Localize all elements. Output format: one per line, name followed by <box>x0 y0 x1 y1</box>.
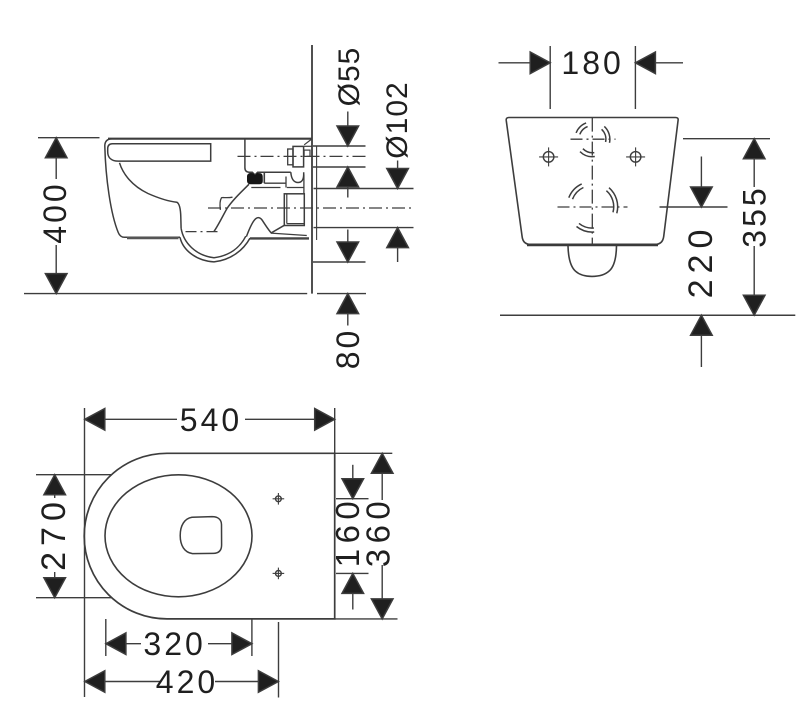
mounting hole left <box>539 147 558 166</box>
inlet circle arcs outer <box>576 123 610 157</box>
dim 420 arrows <box>85 671 105 693</box>
outlet box <box>284 194 304 226</box>
floor line <box>24 293 307 295</box>
dim 270 stems <box>54 492 56 498</box>
svg-text:360: 360 <box>360 496 397 568</box>
gasket seal (black) <box>248 174 263 184</box>
svg-text:420: 420 <box>156 664 218 700</box>
dim 160 stems <box>352 465 354 479</box>
dim 80 arrows <box>337 242 359 262</box>
dim 180 tails <box>499 62 532 64</box>
weir hump <box>246 218 284 237</box>
dim O55 ext lines <box>313 145 366 147</box>
svg-text:80: 80 <box>330 328 366 370</box>
J hook <box>291 172 304 182</box>
dim 220 ext line <box>660 206 728 208</box>
shelf line left <box>251 187 280 189</box>
mounting hole right <box>626 147 645 166</box>
dim 160 arrows <box>342 479 364 499</box>
chamber divider <box>263 172 265 183</box>
rear bottom thick edge <box>527 243 658 246</box>
svg-text:355: 355 <box>736 185 772 247</box>
dim 540 arrows <box>85 409 105 431</box>
chamber right edge <box>303 174 305 193</box>
dim 360 stems <box>381 471 383 500</box>
dim 220 arrows <box>691 187 713 207</box>
pipe top line to wall <box>304 145 312 147</box>
dim 540 ext right <box>334 408 336 453</box>
dim 420 line <box>103 681 160 683</box>
rear floor line <box>500 314 795 316</box>
foot shadow thick line <box>127 237 179 240</box>
dim 420 ext right <box>278 622 280 698</box>
dim 80 stems <box>347 230 349 245</box>
water level line <box>186 231 221 233</box>
trap outer U <box>180 237 250 262</box>
dim 320 ext lines <box>105 619 107 656</box>
plan hole lower <box>273 568 285 580</box>
rear outline trapezoid <box>506 118 678 245</box>
dim 320 line <box>124 643 141 645</box>
dim 355 arrows <box>743 139 765 159</box>
dim 180 arrows <box>530 52 550 74</box>
pipe flange <box>288 149 293 165</box>
dim 270 ext lines <box>36 474 112 476</box>
outlet circle arcs inner <box>573 188 614 229</box>
dim 80 ext line <box>313 261 366 263</box>
outlet box inner left <box>286 194 288 224</box>
svg-text:Ø55: Ø55 <box>333 47 366 107</box>
dim 355 stems <box>753 157 755 187</box>
rear vertical centerline <box>591 118 593 244</box>
centerline outlet <box>208 207 414 209</box>
dim 270 arrows <box>44 475 66 495</box>
dim O102 arrows <box>387 169 409 189</box>
dim O102 stems <box>397 161 399 172</box>
plan outer shape <box>84 453 335 619</box>
chamber ledge line <box>264 182 286 184</box>
rim ellipse <box>105 475 252 597</box>
dim 400 line <box>55 155 57 179</box>
dim 540 line <box>102 418 177 420</box>
svg-text:400: 400 <box>37 181 73 243</box>
rim channel spike <box>220 197 232 210</box>
plan bottom ext segment <box>335 618 398 620</box>
centerline inlet <box>238 155 366 157</box>
svg-text:220: 220 <box>682 224 720 299</box>
wall sleeve <box>304 150 310 156</box>
toilet top edge <box>108 138 312 140</box>
dim 540 ext left shared <box>84 408 86 697</box>
diagonal tick <box>304 139 311 145</box>
wall inner line <box>316 146 318 240</box>
trap inner U <box>181 228 246 257</box>
shelf line right <box>287 187 304 189</box>
dim 400 ext top <box>38 137 100 139</box>
chamber inner wall <box>285 177 287 188</box>
svg-text:320: 320 <box>143 626 205 662</box>
wall line <box>311 45 313 294</box>
flush chamber <box>245 139 291 175</box>
dim 360 arrows <box>371 453 393 473</box>
outlet box inner bottom <box>287 223 305 225</box>
dim 220 stems <box>700 157 702 189</box>
outlet circle arcs outer <box>569 184 618 232</box>
dim O102 ext lines <box>314 188 414 190</box>
dim 355 ext line <box>683 138 770 140</box>
dim 180 ext lines <box>549 46 551 109</box>
floor line right segment <box>317 293 366 295</box>
dim 320 arrows <box>106 633 126 655</box>
svg-text:180: 180 <box>561 45 623 81</box>
inlet circle arcs inner <box>580 127 606 153</box>
duct thin line <box>271 233 307 235</box>
plan hole upper <box>273 493 285 505</box>
outlet circle centerline <box>558 206 628 208</box>
outlet bump <box>568 246 617 277</box>
dim 400 arrows <box>45 138 67 158</box>
skirt thick line <box>250 237 309 239</box>
svg-text:540: 540 <box>180 402 242 438</box>
svg-text:Ø102: Ø102 <box>381 81 414 158</box>
plan top ext segment <box>335 452 393 454</box>
inlet circle centerline <box>571 138 616 140</box>
back wall S-curve <box>214 184 249 231</box>
dim O55 arrows <box>337 126 359 146</box>
dim O55 stems <box>347 112 349 130</box>
inlet pipe <box>293 146 304 167</box>
bowl inner curve <box>120 163 182 229</box>
dim 160 ext lines <box>336 498 369 500</box>
svg-text:270: 270 <box>35 496 73 571</box>
flush opening <box>180 517 221 554</box>
outer profile front edge <box>105 139 180 238</box>
rim section <box>108 144 211 161</box>
